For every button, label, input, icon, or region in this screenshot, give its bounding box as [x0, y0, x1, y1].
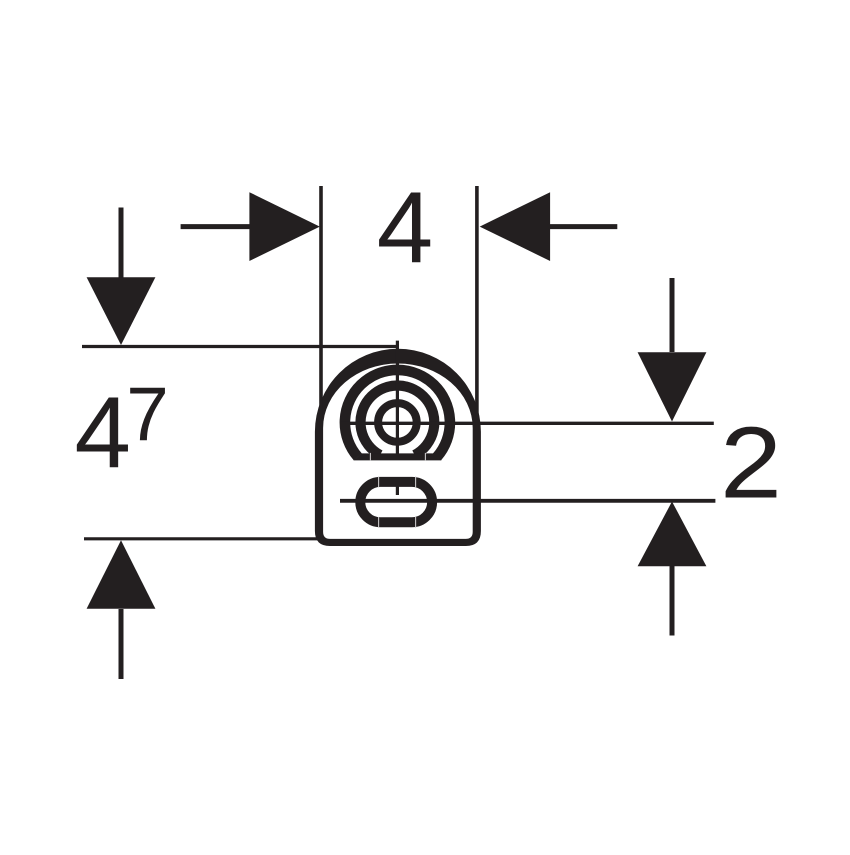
- dim 4 left arrow shaft: [181, 224, 262, 229]
- dim 47 bottom line: [84, 537, 319, 540]
- oval centerline vertical stub: [396, 481, 399, 495]
- middle ring arc: [361, 386, 435, 455]
- svg-text:4: 4: [377, 170, 433, 284]
- svg-text:4: 4: [75, 376, 131, 490]
- center ring: [378, 403, 417, 442]
- dim 47 bottom arrowhead: [87, 540, 156, 609]
- oval slot: [360, 482, 432, 522]
- svg-text:2: 2: [720, 406, 782, 520]
- extension line right (dim 4): [475, 186, 479, 431]
- inner bell contour arc: [345, 370, 450, 457]
- bell bottom chord: [354, 453, 442, 460]
- tick marks oval tangents: [378, 477, 380, 488]
- dim 4 right arrow shaft: [549, 224, 618, 229]
- oval centerline horizontal merged with dim line 2 bottom: [340, 499, 715, 503]
- extension line left (dim 4): [319, 186, 323, 431]
- part outline (outer shell, two contours): [315, 349, 481, 546]
- dim 47 top arrowhead: [87, 277, 156, 345]
- dim 2 up arrowhead: [638, 502, 707, 567]
- hole centerline vertical: [396, 341, 399, 459]
- tick marks bell chord: [369, 453, 371, 461]
- dim 47 top arrow shaft: [119, 208, 124, 281]
- dim 2 down arrowhead: [638, 352, 707, 421]
- dim 2 up arrow shaft: [670, 566, 675, 636]
- dim 2 down arrow shaft: [670, 278, 675, 352]
- dim 47 top line: [82, 345, 396, 348]
- dim 47 bottom arrow shaft: [119, 609, 124, 679]
- dim 4 right arrowhead: [480, 192, 550, 261]
- dim 4 left arrowhead: [249, 192, 319, 261]
- hole centerline horizontal merged with dim line 2 top: [341, 422, 714, 425]
- svg-text:7: 7: [126, 372, 169, 457]
